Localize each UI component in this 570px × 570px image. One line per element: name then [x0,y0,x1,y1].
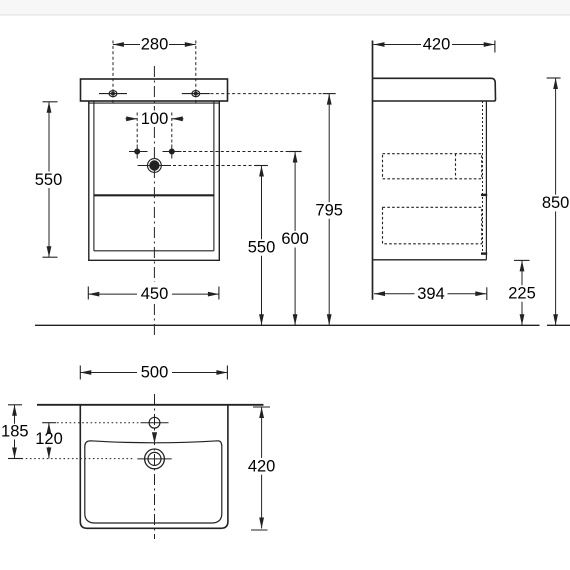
svg-text:225: 225 [508,285,536,303]
svg-text:550: 550 [248,239,276,257]
svg-text:120: 120 [35,430,63,448]
svg-text:850: 850 [542,194,570,212]
svg-text:550: 550 [35,171,63,189]
svg-text:600: 600 [281,230,309,248]
svg-text:420: 420 [248,457,276,475]
svg-text:450: 450 [141,285,169,303]
svg-text:280: 280 [141,36,169,54]
svg-text:420: 420 [423,36,451,54]
svg-text:185: 185 [1,423,29,441]
svg-text:500: 500 [141,364,169,382]
svg-text:100: 100 [141,110,169,128]
svg-text:795: 795 [315,202,343,220]
svg-text:394: 394 [417,285,445,303]
